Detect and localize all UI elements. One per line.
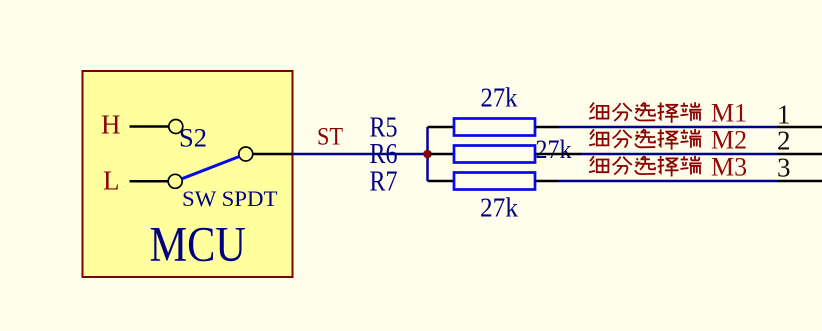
wire R7 right stub (black) <box>535 180 559 183</box>
svg-text:27k: 27k <box>536 135 572 164</box>
wire pin 1 (black) <box>777 126 822 129</box>
svg-text:MCU: MCU <box>150 216 247 272</box>
wire net M1 (navy) <box>559 126 778 129</box>
resistor R7 body <box>454 173 535 190</box>
svg-text:R7: R7 <box>370 167 398 198</box>
svg-text:SW SPDT: SW SPDT <box>182 186 278 211</box>
wire net M3 (navy) <box>559 180 778 183</box>
wire ST (navy) box edge to junction <box>292 153 428 156</box>
resistor R6 body <box>454 146 535 163</box>
junction dot <box>423 150 432 159</box>
svg-text:27k: 27k <box>480 192 518 223</box>
svg-text:M1: M1 <box>711 99 747 128</box>
net label row 1: 细分选择端 M1 <box>589 99 747 128</box>
svg-text:M3: M3 <box>711 153 747 182</box>
svg-text:3: 3 <box>777 153 791 183</box>
switch contact circle L <box>168 174 182 188</box>
pin L wire <box>130 180 169 183</box>
wire pin 2 (black) <box>777 153 822 156</box>
svg-text:R6: R6 <box>370 139 398 170</box>
svg-text:M2: M2 <box>711 126 747 155</box>
resistor R5 body <box>454 119 535 136</box>
switch common pole circle <box>239 147 253 161</box>
switch contact circle H <box>169 120 183 134</box>
MCU box <box>83 71 293 277</box>
junction bus vertical wire (navy) <box>426 127 429 181</box>
wire switch pole to box edge (black) <box>253 153 292 156</box>
wire stub to R6 (black) <box>430 153 454 156</box>
net label row 2: 细分选择端 M2 <box>589 126 747 155</box>
svg-text:2: 2 <box>777 126 791 156</box>
wire R6 right stub (black) <box>535 153 581 156</box>
switch S2 blade (blue diagonal) <box>182 157 240 179</box>
svg-text:L: L <box>103 166 120 196</box>
svg-text:S2: S2 <box>179 124 207 153</box>
wire pin 3 (black) <box>777 180 822 183</box>
wire net M2 (navy) <box>581 153 777 156</box>
svg-text:H: H <box>101 110 121 140</box>
svg-text:27k: 27k <box>481 82 518 113</box>
wire R5 right stub (black) <box>535 126 559 129</box>
svg-text:ST: ST <box>317 124 343 151</box>
pin H wire <box>130 125 170 128</box>
wire stub to R7 (black) <box>428 180 455 183</box>
wire stub to R5 (black) <box>428 126 455 129</box>
net label row 3: 细分选择端 M3 <box>589 153 747 182</box>
